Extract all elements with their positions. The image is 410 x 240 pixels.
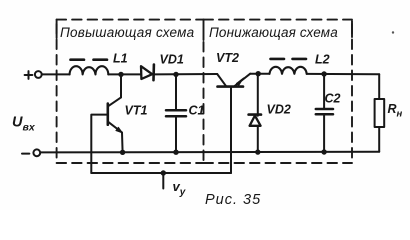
wire control line xyxy=(91,172,231,174)
transistor VT2 xyxy=(217,74,250,87)
capacitor C2 xyxy=(316,109,333,114)
svg-text:Uвх: Uвх xyxy=(12,115,36,134)
wire RH to bottom rail xyxy=(378,127,380,152)
node C1 bottom on rail xyxy=(173,150,178,155)
terminal minus xyxy=(22,149,40,156)
dashed box buck stage xyxy=(204,20,353,163)
wire output right drop xyxy=(378,74,380,99)
wire L1 to VD1 xyxy=(108,73,140,75)
transistor VT1 emitter lead xyxy=(121,133,124,153)
capacitor C2 top lead xyxy=(323,74,325,109)
svg-text:Рис. 35: Рис. 35 xyxy=(205,192,261,208)
diode VD1 xyxy=(141,65,154,81)
capacitor C2 bottom lead xyxy=(323,114,325,152)
svg-text:VD2: VD2 xyxy=(267,103,291,117)
capacitor C1 bottom lead xyxy=(175,116,177,152)
wire control stub xyxy=(162,173,164,189)
node VD2 bottom on rail xyxy=(255,149,260,154)
node C2 bottom on rail xyxy=(321,149,326,154)
diode VD2 xyxy=(249,115,261,126)
node control tap xyxy=(161,170,166,175)
wire VT2 to L2 xyxy=(250,73,269,75)
svg-text:VT1: VT1 xyxy=(125,104,148,118)
wire bottom rail xyxy=(40,151,379,154)
svg-text:C2: C2 xyxy=(325,92,341,106)
box corner tick left xyxy=(56,20,58,38)
node VT1 emitter on rail xyxy=(120,150,125,155)
svg-text:vу: vу xyxy=(173,179,186,198)
speck top right xyxy=(392,31,394,33)
wire input top xyxy=(42,73,70,75)
terminal plus xyxy=(25,71,42,79)
inductor L1 xyxy=(70,66,109,74)
svg-text:C1: C1 xyxy=(189,104,205,118)
svg-text:Rн: Rн xyxy=(388,102,403,120)
svg-text:L1: L1 xyxy=(113,52,128,66)
svg-text:Повышающая схема: Повышающая схема xyxy=(60,25,195,40)
svg-text:L2: L2 xyxy=(315,53,330,67)
svg-text:Понижающая схема: Понижающая схема xyxy=(209,25,338,40)
box divider tick xyxy=(203,20,205,40)
transistor VT2 base lead xyxy=(230,87,232,173)
node L2/C2 junction xyxy=(321,71,326,76)
diode VD2 bottom lead xyxy=(257,126,259,152)
box corner tick right xyxy=(351,21,353,37)
dashed box boost stage xyxy=(57,20,204,163)
node VT2/VD2 junction xyxy=(256,71,261,76)
resistor RH xyxy=(375,99,385,127)
inductor L1 core dashes xyxy=(71,58,108,61)
svg-text:VD1: VD1 xyxy=(160,53,184,67)
svg-text:VT2: VT2 xyxy=(216,51,239,65)
wire L2 to output corner xyxy=(307,73,380,75)
transistor VT1 xyxy=(108,97,123,133)
inductor L2 xyxy=(270,67,307,74)
inductor L2 core dashes xyxy=(271,58,307,61)
transistor VT1 collector riser xyxy=(120,74,122,97)
node L1/VT1 junction xyxy=(118,72,123,77)
node VD1/C1 junction xyxy=(173,72,178,77)
capacitor C1 top lead xyxy=(175,74,177,110)
capacitor C1 xyxy=(166,110,186,116)
transistor VT1 base lead xyxy=(91,115,108,173)
diode VD2 top lead xyxy=(257,74,259,116)
wire VD1 to VT2 xyxy=(153,73,217,75)
